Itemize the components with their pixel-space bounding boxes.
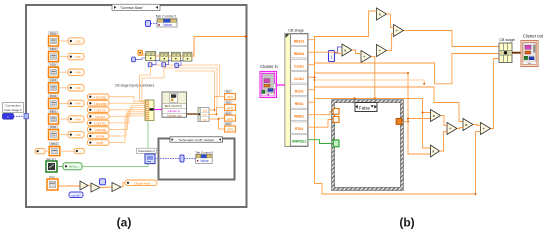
wire — [59, 134, 69, 136]
wire — [163, 68, 225, 107]
wire — [308, 73, 431, 154]
wire — [491, 59, 500, 129]
svg-text:Cluster out: Cluster out — [523, 34, 544, 39]
svg-text:Self (p.): Self (p.) — [46, 157, 56, 161]
local constant right — [74, 148, 84, 153]
numeric control RTb1 — [49, 147, 60, 156]
refnum constant — [180, 155, 184, 162]
svg-text:sound?: sound? — [71, 193, 81, 197]
property node Tab Control 1 Value — [157, 19, 177, 28]
svg-text:Cluster in: Cluster in — [260, 64, 278, 69]
wire — [457, 128, 463, 129]
wire — [314, 37, 316, 184]
wire — [156, 55, 160, 57]
wire — [423, 113, 431, 149]
wire — [88, 186, 91, 188]
indicator BW1 — [225, 112, 236, 122]
svg-text:h11b1: h11b1 — [294, 64, 304, 68]
junction — [353, 97, 355, 99]
wire — [402, 121, 408, 123]
wire — [308, 52, 342, 53]
refnum constant — [146, 21, 151, 27]
comparison node 2 — [91, 183, 100, 192]
numeric control bottom — [47, 179, 58, 190]
numeric control RB1b — [49, 36, 59, 46]
multiply node — [431, 145, 440, 157]
svg-text:RCb1: RCb1 — [50, 94, 57, 98]
cluster control Cluster in — [260, 72, 277, 98]
wire — [59, 56, 69, 58]
wire — [180, 55, 183, 57]
svg-text:RB1b1: RB1b1 — [294, 39, 305, 43]
wire — [59, 87, 69, 89]
multiply node — [463, 119, 473, 131]
wire — [354, 98, 356, 102]
wire — [371, 57, 375, 99]
numeric control RB2b — [49, 52, 59, 62]
input constant 120 h21 — [88, 114, 110, 119]
array function node 3 — [171, 52, 180, 61]
cluster indicator Cluster out — [521, 41, 538, 67]
svg-text:RB1b: RB1b — [50, 31, 57, 35]
svg-text:Presentation 2: Presentation 2 — [138, 149, 155, 153]
svg-text:4 Rb: 4 Rb — [75, 102, 81, 106]
svg-text:a(TF): a(TF) — [227, 118, 233, 121]
svg-text:a(TF): a(TF) — [227, 96, 233, 99]
wire — [109, 102, 145, 104]
svg-text:[%s]: [%s] — [49, 175, 55, 179]
wire — [184, 158, 196, 160]
boolean wire — [82, 121, 148, 167]
junction tunnel — [245, 35, 248, 38]
refnum Connection base stage 2 — [3, 114, 14, 120]
svg-text:4 Rb: 4 Rb — [75, 39, 81, 43]
indicator AV1 — [225, 90, 236, 100]
wire — [209, 107, 225, 114]
label Connection base stage 2 — [3, 103, 24, 113]
tab selector label Common Base — [112, 4, 160, 10]
control label RTb1 — [49, 142, 59, 146]
boolean control Self — [46, 161, 57, 172]
junction — [423, 83, 425, 85]
local constant for RB2b — [68, 53, 84, 59]
select node — [112, 183, 121, 192]
wire — [308, 54, 499, 84]
junction — [374, 97, 376, 99]
wire — [387, 34, 394, 51]
wire — [441, 116, 448, 126]
svg-text:Value: Value — [200, 159, 209, 163]
multiply node — [431, 110, 441, 122]
int constant — [175, 63, 179, 67]
svg-text:4 Rb: 4 Rb — [75, 71, 81, 75]
numeric control h21b — [49, 83, 59, 93]
svg-text:Tab Control 1: Tab Control 1 — [155, 15, 176, 19]
wire — [100, 186, 112, 189]
array function node 2 — [160, 52, 169, 61]
wire — [109, 116, 145, 143]
svg-text:CB stage: CB stage — [499, 38, 515, 42]
input constant 50 RT — [88, 140, 110, 145]
wire — [308, 87, 463, 122]
cluster wire — [187, 113, 199, 115]
comparison node 1 — [80, 181, 88, 190]
wire — [121, 183, 125, 187]
wire — [192, 37, 246, 57]
svg-text:RCb1: RCb1 — [295, 90, 304, 94]
control label RB2b — [49, 47, 59, 51]
svg-text:h21b1: h21b1 — [294, 77, 304, 81]
wire — [109, 97, 145, 102]
wire — [175, 71, 215, 97]
wire — [155, 158, 180, 160]
divide node — [361, 51, 371, 63]
wire — [308, 120, 333, 128]
tunnel boolean — [333, 140, 339, 147]
wire — [473, 125, 481, 126]
wire — [152, 60, 160, 64]
wire — [14, 115, 25, 117]
svg-text:CB stage: CB stage — [288, 29, 304, 33]
svg-text:(a): (a) — [117, 216, 132, 230]
wire — [308, 11, 377, 40]
inner tab selector label — [170, 137, 223, 142]
case selector False — [355, 103, 377, 112]
svg-text:"Common Base": "Common Base" — [120, 6, 143, 10]
wire — [209, 117, 225, 120]
wire — [387, 14, 394, 28]
local constant for RB1b — [68, 38, 84, 44]
wire — [218, 119, 224, 129]
boolean wire — [308, 140, 333, 144]
svg-text:base stage 2: base stage 2 — [4, 108, 22, 112]
svg-text:Value: Value — [163, 23, 172, 27]
svg-text:RINb: RINb — [50, 125, 56, 129]
svg-text:a(TF): a(TF) — [227, 129, 233, 132]
constant — [138, 50, 143, 55]
svg-text:4 Rb: 4 Rb — [75, 55, 81, 59]
svg-text:CB gain result: CB gain result — [134, 182, 151, 186]
green constant Self — [63, 163, 82, 170]
wire — [109, 106, 145, 110]
svg-text:Self (p..): Self (p..) — [69, 165, 80, 169]
wire refnum to property node — [151, 23, 158, 25]
svg-text:4.7E3 RB1: 4.7E3 RB1 — [94, 95, 108, 99]
control label RINb — [49, 125, 59, 129]
wire — [209, 97, 225, 110]
bundle node — [145, 100, 154, 121]
divide node — [394, 25, 404, 37]
wire — [352, 50, 361, 54]
constant result string — [125, 180, 157, 186]
wire — [109, 108, 145, 117]
tunnel — [24, 114, 28, 119]
input constant 2.2E3 RC — [88, 120, 110, 125]
cluster wire — [277, 84, 286, 86]
divide node — [447, 123, 457, 135]
svg-text:RB2b: RB2b — [50, 47, 57, 51]
svg-text:4 Rb: 4 Rb — [75, 117, 81, 121]
local constant for RCb1 — [68, 100, 84, 106]
svg-text:h11b: h11b — [51, 63, 57, 67]
svg-text:Vo1: Vo1 — [203, 119, 208, 122]
wire — [109, 114, 145, 136]
control label RCb1 — [49, 94, 59, 98]
wire — [142, 61, 164, 103]
svg-text:"Schematic of CB", Default: "Schematic of CB", Default — [178, 138, 214, 142]
numeric control RCb1 — [49, 98, 59, 108]
input constant 4.7E3 RB1 — [88, 94, 110, 99]
wire — [408, 118, 431, 120]
svg-text:RB2b1: RB2b1 — [294, 52, 305, 56]
subVI BC1 — [162, 92, 187, 118]
input constant 1.0E3 RE — [88, 127, 110, 132]
svg-text:4 Rb: 4 Rb — [75, 133, 81, 137]
junction — [407, 72, 409, 74]
bundle by name CB stage — [499, 43, 512, 63]
inner frame — [159, 139, 235, 180]
wire — [59, 71, 69, 73]
svg-text:2.2E3 RC: 2.2E3 RC — [94, 122, 106, 126]
svg-text:RTb1: RTb1 — [295, 127, 304, 131]
wire — [315, 184, 476, 195]
wire — [476, 131, 481, 133]
multiply node — [377, 8, 387, 20]
wire — [59, 40, 69, 42]
wire — [57, 166, 63, 168]
control label h21b — [49, 78, 59, 82]
local constant for h21b — [68, 85, 84, 91]
input constant 1.2E3 RB2 — [88, 101, 110, 106]
wire — [109, 112, 145, 130]
wire — [59, 118, 69, 120]
wire — [475, 132, 477, 195]
unbundle node — [198, 108, 209, 122]
svg-text:REb1: REb1 — [295, 102, 304, 106]
control label REb1 — [49, 109, 59, 113]
divide node — [377, 45, 387, 57]
junction — [214, 109, 216, 111]
wire — [166, 60, 172, 64]
svg-text:REb1: REb1 — [50, 109, 57, 113]
int constant — [148, 63, 152, 67]
panel a outer frame — [26, 5, 247, 207]
local constant left — [35, 149, 45, 154]
svg-text:(b): (b) — [399, 216, 414, 230]
control label h11b — [49, 63, 59, 67]
numeric control h11b — [49, 67, 59, 77]
svg-text:False: False — [359, 105, 371, 110]
svg-text:SWRCb1: SWRCb1 — [292, 140, 306, 144]
int constant — [132, 57, 136, 62]
svg-text:1.0E3 RE: 1.0E3 RE — [94, 128, 106, 132]
case structure frame — [332, 100, 404, 191]
divide node — [481, 123, 491, 135]
boolean small constant — [100, 179, 106, 185]
wire — [308, 98, 431, 112]
cluster wire — [512, 52, 521, 54]
svg-text:120 h21: 120 h21 — [95, 115, 105, 119]
svg-text:1.1E3 h11: 1.1E3 h11 — [94, 108, 107, 112]
wire — [335, 47, 343, 53]
local constant for RINb — [68, 131, 84, 137]
wire — [151, 65, 225, 97]
numeric control REb1 — [49, 114, 59, 124]
property node Tab Control 6 — [196, 154, 213, 163]
svg-text:BC1 (SubVI)..: BC1 (SubVI).. — [165, 104, 184, 108]
input constant 1.1E3 h11 — [88, 107, 110, 112]
control Presentation 2 — [145, 154, 155, 164]
numeric control RINb — [49, 130, 59, 140]
wire — [109, 110, 145, 123]
wire — [315, 80, 425, 84]
array function node 1 — [146, 52, 156, 61]
array function node 4 — [183, 52, 192, 61]
tunnel — [396, 119, 402, 125]
wire — [59, 102, 69, 104]
junction — [475, 193, 477, 195]
wire — [135, 58, 145, 59]
svg-text:RTb1: RTb1 — [51, 142, 58, 146]
string constant sound — [69, 192, 83, 198]
wire — [58, 185, 80, 187]
svg-text:RINb1: RINb1 — [294, 115, 304, 119]
wire — [169, 55, 172, 57]
svg-text:1.2E3 RB2: 1.2E3 RB2 — [94, 102, 108, 106]
control label RB1b — [49, 31, 59, 35]
wire — [60, 150, 74, 152]
wire — [404, 31, 500, 47]
unbundle by name CB stage — [285, 34, 308, 147]
svg-text:CB stage input parameters: CB stage input parameters — [115, 84, 155, 88]
junction — [407, 118, 409, 120]
indicator AV2 — [225, 101, 236, 111]
svg-text:50 RIN: 50 RIN — [96, 135, 104, 139]
svg-text:Cluster out: Cluster out — [167, 114, 182, 118]
input constant 50 RIN — [88, 133, 110, 138]
wire — [179, 60, 183, 65]
cluster wire — [154, 109, 162, 111]
local constant for REb1 — [68, 116, 84, 122]
junction — [422, 112, 424, 114]
svg-text:h21b: h21b — [50, 78, 56, 82]
indicator BW2 — [225, 122, 236, 132]
int constant — [162, 63, 166, 67]
tunnel — [333, 117, 339, 123]
wire — [140, 61, 151, 101]
multiply node — [342, 44, 352, 56]
wire — [45, 150, 49, 152]
tunnel — [333, 109, 339, 115]
svg-text:50 RT: 50 RT — [96, 141, 104, 145]
wire — [440, 132, 448, 152]
local constant for h11b — [68, 69, 84, 75]
svg-text:a(TF): a(TF) — [227, 107, 233, 110]
numeric constant 1 — [329, 51, 335, 62]
wire — [143, 54, 146, 56]
svg-text:Cluster in: Cluster in — [168, 109, 181, 113]
wire — [308, 112, 333, 115]
svg-text:4 Rb: 4 Rb — [75, 86, 81, 90]
label Presentation 2 — [137, 148, 157, 153]
svg-text:Tab Control 6: Tab Control 6 — [195, 150, 213, 154]
